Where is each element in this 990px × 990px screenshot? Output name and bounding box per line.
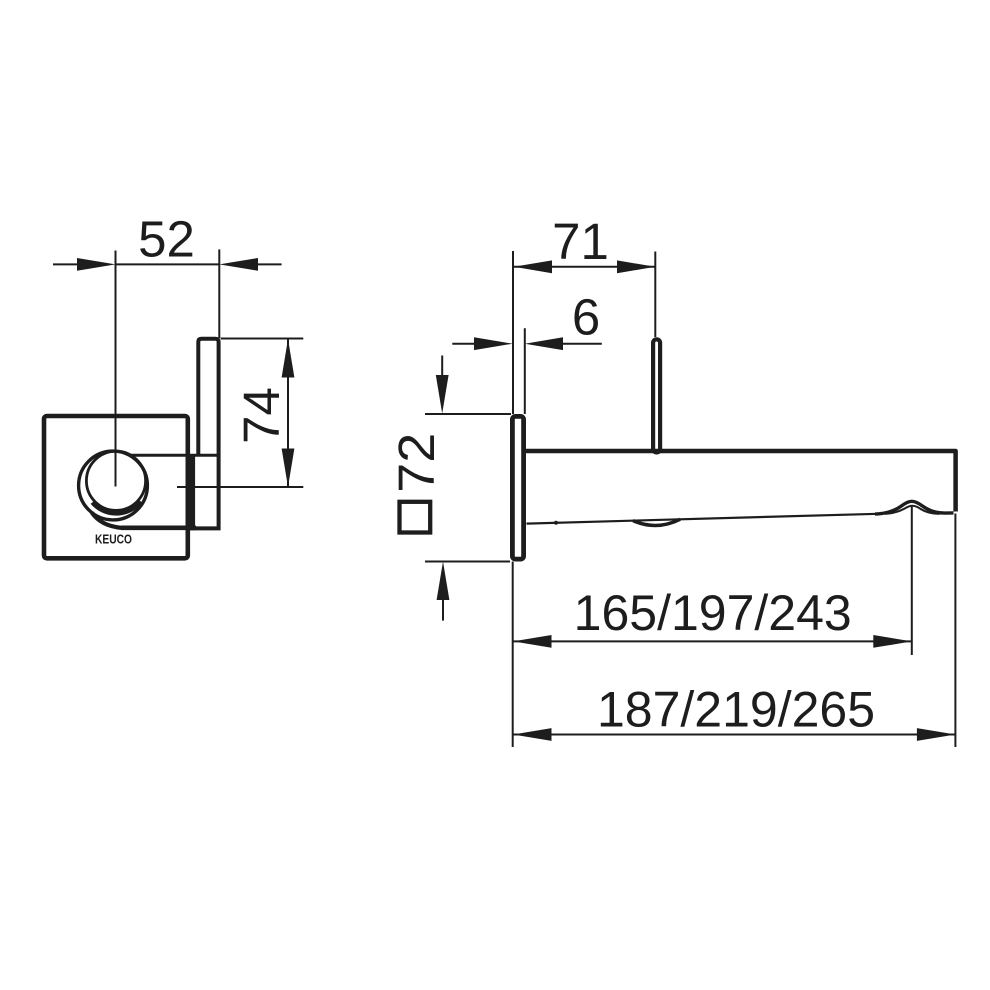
knob center horizontal line bbox=[177, 486, 303, 488]
dimension 71 left extension line bbox=[512, 251, 514, 414]
dimension 165/197/243 right arrowhead bbox=[873, 635, 912, 648]
dimension 6 right extension line bbox=[524, 328, 526, 414]
handle top line bbox=[131, 454, 217, 457]
dimension 52 line bbox=[116, 263, 220, 265]
aerator extension line bbox=[911, 506, 913, 655]
knob center vertical line bbox=[115, 251, 117, 487]
dimension 71 right extension line bbox=[654, 252, 656, 338]
lever (side) bbox=[653, 339, 660, 452]
left wall extension line below plate bbox=[512, 562, 514, 748]
dimension 72 bottom extension line bbox=[425, 561, 510, 563]
dimension 71 right arrowhead bbox=[617, 260, 655, 273]
knob inner circle bbox=[86, 451, 145, 510]
tick on bottom edge bbox=[554, 521, 558, 525]
dark strip between plate edge and bar bbox=[186, 454, 196, 530]
dimension 74 line bbox=[287, 339, 289, 487]
dimension 71 line bbox=[514, 266, 656, 268]
dimension 165/197/243 left arrowhead bbox=[513, 635, 552, 648]
knob outer circle bbox=[79, 451, 148, 520]
svg-text:52: 52 bbox=[138, 211, 195, 268]
dimension 52 left arrowhead bbox=[77, 258, 116, 271]
dimension 52 right arrowhead bbox=[219, 258, 258, 271]
dimension 72 top extension line bbox=[425, 413, 511, 415]
dimension 52 right extension line bbox=[218, 249, 220, 338]
square escutcheon plate bbox=[44, 416, 188, 558]
spout bar (front view) bbox=[195, 339, 219, 529]
dimension 6 right arrowhead bbox=[525, 337, 563, 350]
knob skirt swoosh bbox=[92, 513, 122, 528]
dimension 52 right tail bbox=[258, 263, 282, 265]
svg-text:71: 71 bbox=[552, 213, 609, 270]
dimension 72 bottom up arrowhead bbox=[437, 562, 450, 601]
dimension 187/219/265 left arrowhead bbox=[513, 728, 552, 741]
svg-text:72: 72 bbox=[388, 433, 445, 493]
spout top and right edge bbox=[526, 451, 956, 512]
cartridge bump under spout bbox=[633, 519, 680, 525]
spout bottom edge bbox=[527, 514, 879, 524]
dimension 72 bottom leader line bbox=[442, 599, 444, 621]
dimension 71 left arrowhead bbox=[514, 260, 552, 273]
dimension square-72 square symbol bbox=[400, 502, 431, 533]
dimension 74 down arrowhead bbox=[282, 449, 295, 488]
dimension 187/219/265 line bbox=[513, 734, 955, 736]
handle bottom line bbox=[121, 525, 196, 530]
aerator hump inner line bbox=[885, 506, 940, 514]
dimension 72 top down arrowhead bbox=[436, 375, 449, 414]
knob shading crescent bbox=[93, 501, 141, 513]
dimension 72 top leader line bbox=[441, 356, 443, 377]
svg-text:187/219/265: 187/219/265 bbox=[597, 682, 875, 738]
dimension 6 left arrowhead bbox=[474, 337, 513, 350]
dimension 74 top extension line bbox=[221, 338, 304, 340]
aerator hump outer bbox=[875, 501, 954, 514]
dimension 187/219/265 right arrowhead bbox=[917, 728, 956, 741]
dimension 74 up arrowhead bbox=[282, 339, 295, 378]
dimension 6 left tail bbox=[452, 343, 475, 345]
svg-text:6: 6 bbox=[572, 289, 600, 346]
wall escutcheon plate (side) bbox=[512, 416, 523, 559]
spout tip extension line bbox=[954, 514, 956, 748]
dimension 52 left tail bbox=[53, 263, 78, 265]
dimension 165/197/243 line bbox=[513, 640, 912, 642]
svg-text:74: 74 bbox=[233, 387, 290, 444]
svg-text:165/197/243: 165/197/243 bbox=[574, 585, 852, 641]
dimension 6 right tail bbox=[563, 343, 602, 345]
svg-text:KEUCO: KEUCO bbox=[95, 533, 132, 547]
